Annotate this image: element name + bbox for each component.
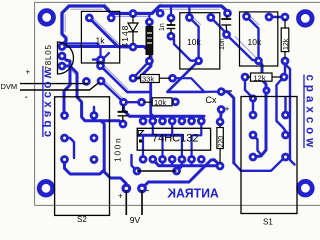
- pad 12kH left: [242, 74, 248, 80]
- 9V plus wire: [125, 190, 127, 215]
- pad 78L05 pin2: [59, 53, 65, 59]
- wire stub P6: [148, 14, 150, 23]
- S2 pads: [62, 113, 68, 119]
- IC U1 pin1 notch: [138, 131, 143, 137]
- resistor R1 body: [146, 27, 153, 55]
- pad 78L05 pin1: [59, 44, 65, 50]
- pad trimmer3 TR: [266, 14, 272, 20]
- pad Cx minus: [218, 89, 224, 95]
- pad trimmer2 TL: [187, 15, 193, 21]
- wire trimmer2 wiper rail: [167, 61, 204, 92]
- diode D1 4148: [128, 16, 138, 44]
- 9V pads: [123, 185, 130, 192]
- svg-text:4148: 4148: [120, 25, 130, 48]
- wire transistor out: [62, 47, 151, 79]
- svg-text:Cx: Cx: [206, 95, 217, 105]
- pad cap C1 top: [168, 15, 174, 21]
- wire trimmer2 TR down: [211, 18, 227, 34]
- wire under 33k and 10k vertical: [151, 80, 153, 121]
- wire stub P8: [170, 6, 172, 18]
- pad diode D1 cathode: [130, 44, 136, 50]
- wire jumper2 to bus: [177, 166, 182, 171]
- svg-text:+: +: [118, 192, 123, 201]
- wire DVM plus: [20, 83, 88, 85]
- wire dvm pad to 100n: [101, 81, 124, 102]
- svg-text:12k: 12k: [283, 38, 290, 50]
- svg-text:100n: 100n: [113, 137, 123, 162]
- capacitor C2 10n: [221, 16, 231, 32]
- svg-text:+: +: [225, 105, 230, 114]
- pad Cx plus: [218, 107, 224, 113]
- capacitor 100n: [118, 105, 128, 122]
- wire cap10n to trimmer3: [227, 35, 259, 61]
- wire s1 mid jog: [253, 135, 261, 155]
- svg-text:10k: 10k: [248, 37, 262, 47]
- capacitor C1 1n: [167, 20, 176, 34]
- wire top-left power trace: [62, 6, 228, 45]
- svg-text:1k: 1k: [96, 36, 106, 46]
- mounting hole bottom-left: [39, 182, 53, 196]
- wire ic bus stubs: [143, 116, 201, 121]
- pad 12kV top: [282, 14, 288, 20]
- wire Cx to 220: [219, 110, 223, 122]
- wire stub P2: [110, 14, 112, 18]
- pad trimmer1 TL: [86, 15, 92, 21]
- IC U1 bottom pads: [140, 156, 146, 162]
- svg-text:33k: 33k: [142, 75, 154, 84]
- pad 12kV bottom: [282, 58, 288, 64]
- wire transistor pad3 down: [62, 66, 123, 124]
- pad DVM minus: [98, 78, 104, 84]
- pad diode D1 anode: [130, 11, 136, 17]
- wire trimmer2 internal: [189, 18, 198, 61]
- pad bend: [157, 10, 163, 16]
- pad cap C2 bottom: [224, 32, 230, 38]
- wire trimmer3 wiper down: [253, 61, 266, 157]
- pad node A: [98, 57, 104, 63]
- wire res1 to 33k: [133, 61, 149, 78]
- pad trimmer2 wiper: [196, 58, 202, 64]
- wire S2 pad stub: [93, 107, 95, 116]
- mounting hole bottom-right: [299, 181, 313, 195]
- wire 12kH right to 12kV: [284, 61, 285, 77]
- pad 220 bottom: [217, 163, 223, 169]
- wire node A diagonal to rail: [101, 66, 151, 92]
- mounting hole top-left: [40, 11, 54, 25]
- S2 connector box: [55, 97, 110, 216]
- resistor 220 body: [217, 128, 223, 149]
- svg-text:10n: 10n: [219, 38, 226, 50]
- resistor 33k body: [141, 75, 160, 83]
- svg-text:9V: 9V: [130, 215, 141, 225]
- wire 12kH left down: [245, 77, 253, 115]
- trimmer RV1 box: [81, 11, 119, 63]
- pad 100n bottom: [120, 121, 126, 127]
- pad resistor R1 top: [147, 19, 153, 25]
- wire 12kH right down long: [285, 64, 295, 165]
- svg-text:74HC132: 74HC132: [152, 133, 198, 145]
- pad 10k left: [139, 99, 145, 105]
- pad DVM plus: [84, 79, 90, 85]
- svg-text:220: 220: [218, 136, 225, 148]
- wire ic bottom bus: [153, 159, 220, 166]
- wire cap1n to trimmer2: [171, 36, 199, 61]
- pad 33k right: [170, 75, 176, 81]
- pad node A2: [98, 63, 104, 69]
- pad trimmer3 wiper: [256, 58, 262, 64]
- wire IC pin stubs interior: [143, 121, 201, 159]
- wire 100n to 10k: [124, 101, 142, 103]
- pads: [59, 10, 288, 191]
- pad cap C2 top: [225, 10, 231, 16]
- wire DVM minus: [20, 82, 100, 90]
- Cx minus mark: [229, 90, 233, 92]
- IC U1 74HC132 box: [137, 128, 210, 150]
- pad resistor R1 bottom: [147, 58, 153, 64]
- wire IC interior bus: [139, 134, 182, 137]
- svg-text:S2: S2: [77, 215, 87, 224]
- wire trimmer1 diagonal: [89, 18, 133, 47]
- mounting hole top-right: [299, 12, 313, 26]
- pad 220 top: [217, 119, 223, 125]
- S1 pads: [250, 112, 256, 118]
- IC U1 top pads: [140, 118, 146, 124]
- svg-text:cpaxcow: cpaxcow: [304, 75, 316, 152]
- svg-text:ANTRAK: ANTRAK: [167, 186, 219, 200]
- pad 33k left: [130, 75, 136, 81]
- wire 33k right chain: [173, 78, 222, 92]
- wire Cx pad right bend: [221, 92, 234, 163]
- bevel highlights: [65, 4, 260, 181]
- jumper wire: [137, 170, 177, 172]
- wire 9vminus sweep: [142, 160, 220, 189]
- wire s1 col2 mid feed: [277, 77, 286, 135]
- pad trimmer3 TL: [244, 14, 250, 20]
- IC U1 pin1 dot: [139, 140, 142, 143]
- resistor 12k vertical body: [281, 28, 289, 52]
- pad 100n top: [121, 99, 127, 105]
- S1 connector box: [241, 97, 297, 214]
- trimmer RV3 box: [240, 12, 278, 66]
- svg-text:S1: S1: [263, 218, 273, 227]
- svg-text:DVM: DVM: [1, 82, 18, 91]
- wire 9vplus feed: [101, 121, 126, 189]
- wire jumper1 stub: [132, 155, 138, 171]
- wire trimmer3 TR to 12kV: [269, 16, 285, 18]
- wire s2 mid pad diag: [65, 138, 75, 158]
- wire stub P10: [188, 6, 190, 18]
- pad 78L05 pin3: [59, 63, 65, 69]
- regulator 78L05 body: [58, 42, 74, 74]
- wire s1 lower exit: [234, 157, 286, 171]
- wire s1 TR feed: [284, 98, 286, 115]
- jumper pads: [134, 168, 140, 174]
- wire node A stub: [93, 58, 101, 60]
- via pads: [264, 88, 269, 93]
- wire trimmer P1 feed: [66, 44, 101, 62]
- wire ic top bus: [124, 102, 205, 116]
- wire s2 bottom bend: [65, 160, 105, 175]
- svg-text:1n: 1n: [159, 23, 166, 31]
- 9V minus wire: [141, 190, 143, 215]
- svg-text:-: -: [25, 92, 28, 103]
- wire transistor pad2 down: [62, 56, 70, 116]
- svg-text:+: +: [26, 68, 31, 77]
- svg-text:12k: 12k: [254, 73, 266, 82]
- board outline: [35, 2, 320, 205]
- pad 10k right: [173, 99, 179, 105]
- svg-text:-: -: [146, 186, 149, 197]
- svg-text:10k: 10k: [154, 98, 166, 107]
- pad trimmer1 wiper: [98, 59, 104, 65]
- wire trimmer3 internal: [247, 17, 259, 61]
- svg-text:10k: 10k: [187, 37, 201, 47]
- trimmer RV2 box: [180, 13, 220, 69]
- pad cap C1 bottom: [168, 33, 174, 39]
- resistor 10k horizontal body: [152, 98, 172, 106]
- pad trimmer2 TR: [208, 15, 214, 21]
- pad trimmer1 TR: [108, 15, 114, 21]
- resistor 12k horizontal body: [251, 73, 273, 81]
- pad 12kH right: [281, 74, 287, 80]
